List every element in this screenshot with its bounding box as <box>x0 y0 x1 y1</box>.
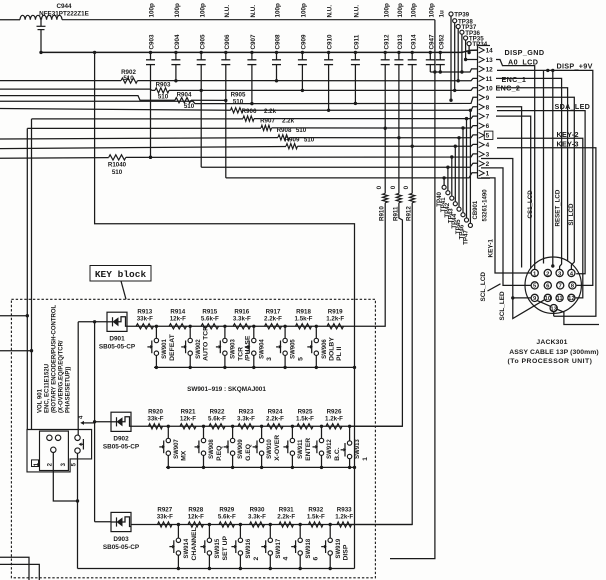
label JACK301 <box>508 339 599 365</box>
resistor R924 2.2k-F <box>266 408 284 429</box>
wire <box>78 320 107 323</box>
svg-text:1: 1 <box>362 457 369 461</box>
wire SI_LCD drop <box>496 97 575 269</box>
svg-text:SW912: SW912 <box>327 439 333 459</box>
svg-text:B.C.: B.C. <box>334 447 341 461</box>
switch SW903 <box>216 325 252 370</box>
switch SW918 <box>291 523 319 570</box>
resistor R910 0 <box>344 128 388 326</box>
wire to pin12 <box>440 69 477 72</box>
label SW901-919 <box>187 386 266 393</box>
wire <box>201 163 477 167</box>
wire <box>327 65 330 112</box>
test point TP42 <box>444 155 454 217</box>
wire A0_LCD pin13 stub <box>466 59 478 61</box>
svg-text:R905: R905 <box>231 91 246 98</box>
switch SW913 <box>341 425 369 470</box>
wire SCL_LCD <box>480 168 531 302</box>
svg-text:4: 4 <box>486 142 490 149</box>
resistor R931 2.2k-F <box>277 507 295 528</box>
svg-text:33k-F: 33k-F <box>157 514 173 521</box>
wire <box>32 118 244 120</box>
svg-text:R911: R911 <box>392 206 399 221</box>
wire <box>94 322 96 522</box>
svg-text:D901: D901 <box>109 336 125 343</box>
svg-text:SW906: SW906 <box>322 339 328 359</box>
svg-text:5.6k-F: 5.6k-F <box>201 315 219 322</box>
svg-text:2: 2 <box>253 557 260 561</box>
wire <box>126 154 478 158</box>
svg-text:SW910: SW910 <box>267 439 273 459</box>
KEY block border <box>11 299 375 578</box>
ground bus <box>41 50 478 52</box>
resistor R909 510 <box>285 136 315 148</box>
resistor R913 33k-F <box>136 308 154 329</box>
wire ENC_1 line <box>0 80 121 82</box>
svg-text:R920: R920 <box>148 408 163 415</box>
svg-text:N.U.: N.U. <box>354 5 361 18</box>
resistor R927 33k-F <box>157 507 173 528</box>
svg-text:DISP_+9V: DISP_+9V <box>557 62 593 71</box>
wire <box>250 65 253 106</box>
svg-text:3.3k-F: 3.3k-F <box>233 315 251 322</box>
svg-text:JACK301: JACK301 <box>536 339 567 346</box>
svg-text:DEFEAT: DEFEAT <box>169 333 176 361</box>
filter C944 NFE31PT222Z1E <box>20 3 89 52</box>
svg-text:12k-F: 12k-F <box>180 415 196 422</box>
svg-text:3: 3 <box>266 357 273 361</box>
svg-text:2: 2 <box>486 161 490 168</box>
rotary encoder VOL901 <box>27 430 92 472</box>
svg-text:SW919: SW919 <box>336 538 342 558</box>
switch SW906 <box>307 325 343 370</box>
capacitor C952 1u <box>436 10 446 65</box>
switch SW901 <box>147 325 175 370</box>
test point TP39 <box>449 12 470 102</box>
svg-text:R1040: R1040 <box>108 162 127 169</box>
svg-text:10: 10 <box>545 296 552 302</box>
test point TP35 <box>464 36 485 62</box>
svg-text:R907: R907 <box>260 118 275 125</box>
capacitor C903 100p <box>146 3 156 65</box>
svg-text:N.U.: N.U. <box>250 5 257 18</box>
switch SW905 <box>276 325 304 370</box>
resistor R932 1.5k-F <box>307 507 325 528</box>
test point TP40 <box>436 176 446 207</box>
resistor R912 0 <box>348 146 415 524</box>
resistor R922 5.6k-F <box>208 408 226 429</box>
svg-text:TP47: TP47 <box>462 230 469 245</box>
resistor R915 5.6k-F <box>201 308 219 329</box>
junction <box>93 51 96 54</box>
resistor R1040 510 <box>108 155 127 176</box>
svg-text:C909: C909 <box>301 34 308 50</box>
svg-text:R926: R926 <box>327 408 342 415</box>
wire KEY-3 line <box>0 147 286 149</box>
wire C947/C952 join <box>430 70 442 73</box>
wire rail1 <box>154 366 355 368</box>
svg-text:5: 5 <box>298 357 305 361</box>
wire <box>93 420 111 423</box>
svg-text:VOL 901: VOL 901 <box>37 388 43 413</box>
wire rail2 <box>166 466 355 468</box>
svg-text:8: 8 <box>486 104 490 111</box>
svg-text:12: 12 <box>568 296 575 302</box>
svg-text:100p: 100p <box>397 3 404 18</box>
diode D901 SB05-05-CP <box>99 312 136 350</box>
wire <box>191 99 226 101</box>
wire <box>439 65 441 72</box>
svg-text:D903: D903 <box>113 536 129 543</box>
wire <box>27 127 261 129</box>
svg-text:N.U.: N.U. <box>327 5 334 18</box>
svg-text:4: 4 <box>283 557 290 561</box>
wire <box>224 65 227 178</box>
resistor R933 1.2k-F <box>335 507 353 528</box>
wire <box>496 88 568 262</box>
svg-text:R925: R925 <box>298 408 313 415</box>
svg-text:NFE31PT222Z1E: NFE31PT222Z1E <box>39 11 89 18</box>
wire <box>0 350 32 352</box>
svg-text:SW901: SW901 <box>162 339 168 359</box>
resistor R920 33k-F <box>147 408 163 429</box>
wire CS1_LCD drop <box>496 60 535 270</box>
svg-text:33k-F: 33k-F <box>137 315 153 322</box>
wire <box>511 296 544 318</box>
connector CB901 53261-1490 <box>473 46 493 222</box>
wire row3 <box>131 524 412 526</box>
wire <box>0 96 175 101</box>
wire <box>537 301 599 325</box>
net KEY-3 <box>497 140 596 317</box>
svg-text:1.5k-F: 1.5k-F <box>295 315 313 322</box>
svg-text:P.EQ: P.EQ <box>216 446 223 461</box>
svg-text:C952: C952 <box>438 34 445 50</box>
switch SW911 <box>283 425 311 470</box>
wire <box>0 557 29 580</box>
switch SW908 <box>195 425 223 470</box>
svg-text:510: 510 <box>123 75 134 82</box>
wire <box>0 19 20 21</box>
wire matrix common <box>95 52 355 568</box>
svg-text:100p: 100p <box>383 3 390 18</box>
resistor R919 1.2k-F <box>326 308 344 329</box>
svg-text:SW901–919 : SKQMAJ001: SW901–919 : SKQMAJ001 <box>187 386 266 393</box>
svg-text:R912: R912 <box>406 206 413 221</box>
wire row1 <box>127 325 344 327</box>
svg-text:C903: C903 <box>149 34 156 50</box>
svg-text:2.2k-F: 2.2k-F <box>264 315 282 322</box>
test point TP37 <box>456 24 477 82</box>
svg-text:(ROTARY ENCODER/PUSH-CONTROL: (ROTARY ENCODER/PUSH-CONTROL <box>51 304 57 413</box>
svg-text:R908: R908 <box>277 127 292 134</box>
svg-text:SET UP: SET UP <box>222 535 229 560</box>
switch SW915 <box>200 523 228 570</box>
svg-text:C944: C944 <box>56 3 72 10</box>
svg-text:14: 14 <box>486 48 494 55</box>
svg-text:SW911: SW911 <box>298 439 304 459</box>
wire <box>0 109 231 111</box>
svg-text:100p: 100p <box>301 3 308 18</box>
wire <box>390 72 435 559</box>
svg-text:510: 510 <box>112 169 123 176</box>
svg-text:SI_LCD: SI_LCD <box>568 203 575 226</box>
net DISP_+9V <box>497 62 593 286</box>
svg-text:R924: R924 <box>268 408 283 415</box>
svg-text:R906: R906 <box>242 108 257 115</box>
switch SW902 <box>181 325 209 370</box>
svg-text:9: 9 <box>486 95 490 102</box>
junction <box>546 69 554 72</box>
svg-text:RESET_LCD: RESET_LCD <box>554 189 561 226</box>
net DISP_GND <box>505 48 545 57</box>
wire <box>226 173 478 178</box>
svg-text:R916: R916 <box>234 308 249 315</box>
svg-text:1.2k-F: 1.2k-F <box>326 315 344 322</box>
net SDA_LED <box>497 102 590 274</box>
svg-text:SW902: SW902 <box>196 339 202 359</box>
diode D902 SB05-05-CP <box>103 412 140 450</box>
svg-text:11: 11 <box>486 76 493 83</box>
resistor R906 2.2k <box>242 108 277 121</box>
wire <box>149 65 152 159</box>
wire KEY-2 line <box>0 138 278 139</box>
svg-text:10: 10 <box>486 85 494 92</box>
svg-text:(X-OVER/G.EQ/P.EQ/TCR/: (X-OVER/G.EQ/P.EQ/TCR/ <box>58 340 64 413</box>
resistor R921 12k-F <box>180 408 196 429</box>
svg-text:SW909: SW909 <box>238 439 244 459</box>
resistor R929 5.6k-F <box>218 507 236 528</box>
svg-text:SW905: SW905 <box>291 339 297 359</box>
svg-text:13: 13 <box>486 57 494 64</box>
svg-text:KEY block: KEY block <box>95 269 147 280</box>
resistor R917 2.2k-F <box>264 308 282 329</box>
svg-text:510: 510 <box>184 103 195 110</box>
svg-text:ENC_1: ENC_1 <box>502 75 527 84</box>
svg-text:C904: C904 <box>174 34 181 50</box>
svg-text:0: 0 <box>376 185 383 189</box>
svg-text:100p: 100p <box>410 3 417 18</box>
svg-text:R921: R921 <box>181 408 196 415</box>
svg-text:1.5k-F: 1.5k-F <box>307 514 325 521</box>
resistor R911 0 <box>350 138 403 427</box>
svg-text:R903: R903 <box>156 82 171 89</box>
junction <box>39 51 42 54</box>
capacitor C905 100p <box>197 3 207 65</box>
svg-text:C910: C910 <box>327 34 334 50</box>
net KEY-2 <box>497 130 583 298</box>
wire <box>434 20 436 72</box>
svg-text:C947: C947 <box>428 34 435 50</box>
svg-text:11: 11 <box>556 296 563 302</box>
svg-text:SW917: SW917 <box>276 538 282 558</box>
svg-text:C912: C912 <box>383 34 390 50</box>
svg-text:C913: C913 <box>397 34 404 50</box>
net ENC_2 <box>496 84 521 93</box>
svg-text:100p: 100p <box>199 3 206 18</box>
svg-text:510: 510 <box>233 99 244 106</box>
resistor R908 510 <box>277 127 307 140</box>
capacitor C914 100p <box>408 3 418 65</box>
svg-text:C906: C906 <box>224 34 231 50</box>
svg-text:C905: C905 <box>199 34 206 50</box>
test point TP36 <box>460 30 481 74</box>
capacitor C911 N.U. <box>351 5 361 65</box>
wire <box>354 65 357 106</box>
resistor R904 510 <box>175 91 195 110</box>
svg-text:1.2k-F: 1.2k-F <box>325 415 343 422</box>
svg-text:R929: R929 <box>219 507 234 514</box>
test point TP41 <box>440 166 450 213</box>
svg-text:1: 1 <box>486 171 490 178</box>
svg-text:ENC, EC11E152U: ENC, EC11E152U <box>44 364 50 413</box>
wire <box>411 65 414 148</box>
wire <box>138 78 478 80</box>
wire <box>496 116 531 268</box>
wire <box>543 70 545 263</box>
test point TP46 <box>459 117 469 240</box>
svg-text:(To PROCESSOR UNIT): (To PROCESSOR UNIT) <box>508 358 593 365</box>
svg-text:R932: R932 <box>308 507 323 514</box>
capacitor C910 N.U. <box>324 5 334 65</box>
svg-text:33k-F: 33k-F <box>147 415 163 422</box>
svg-text:PL II: PL II <box>336 347 343 361</box>
resistor R907 2.2k <box>260 118 294 131</box>
svg-text:R931: R931 <box>279 507 294 514</box>
resistor R925 1.5k-F <box>296 408 314 429</box>
svg-text:DISP: DISP <box>343 544 350 560</box>
svg-text:1.5k-F: 1.5k-F <box>296 415 314 422</box>
svg-text:SW913: SW913 <box>355 439 361 459</box>
svg-text:6: 6 <box>486 123 490 130</box>
svg-text:D902: D902 <box>113 436 129 443</box>
wire <box>272 126 478 128</box>
svg-text:5: 5 <box>486 133 490 140</box>
svg-text:AUTO TCR: AUTO TCR <box>203 326 210 361</box>
svg-text:CHANNEL: CHANNEL <box>191 527 198 560</box>
wire <box>174 65 177 83</box>
wire <box>553 312 555 317</box>
svg-text:MX: MX <box>181 450 188 461</box>
svg-text:12k-F: 12k-F <box>170 315 186 322</box>
svg-text:R909: R909 <box>285 136 300 143</box>
svg-text:SW915: SW915 <box>215 538 221 558</box>
svg-text:SDA_LED: SDA_LED <box>555 102 591 111</box>
svg-text:C911: C911 <box>354 34 361 49</box>
resistor R918 1.5k-F <box>295 308 313 329</box>
svg-text:510: 510 <box>304 136 315 143</box>
svg-text:7: 7 <box>486 114 490 121</box>
svg-text:2.2k: 2.2k <box>264 108 277 115</box>
svg-text:13: 13 <box>550 306 557 312</box>
junction <box>353 366 356 469</box>
svg-text:SW914: SW914 <box>184 538 190 558</box>
capacitor C908 100p <box>272 3 282 65</box>
wire <box>0 157 109 160</box>
svg-text:SCL_LED: SCL_LED <box>499 291 506 321</box>
svg-text:53261-1490: 53261-1490 <box>483 189 489 222</box>
wire ENC_2 line <box>0 89 155 90</box>
svg-text:R913: R913 <box>137 308 152 315</box>
svg-text:3.3k-F: 3.3k-F <box>237 415 255 422</box>
svg-text:CB901: CB901 <box>473 200 479 219</box>
test point TP47 <box>462 109 472 245</box>
wire <box>169 88 478 91</box>
wire <box>397 65 400 140</box>
wire <box>429 65 431 72</box>
switch SW910 <box>253 425 281 470</box>
svg-text:SW904: SW904 <box>259 339 265 359</box>
switch SW909 <box>224 425 252 470</box>
net A0_LCD <box>508 57 538 66</box>
switch SW917 <box>261 523 289 570</box>
svg-text:100p: 100p <box>428 3 435 18</box>
resistor R903 510 <box>155 82 171 101</box>
svg-text:G.EQ: G.EQ <box>245 444 252 461</box>
svg-text:SW907: SW907 <box>174 439 180 459</box>
svg-text:SW908: SW908 <box>209 439 215 459</box>
test point TP34 <box>467 41 488 54</box>
svg-text:R918: R918 <box>296 308 311 315</box>
svg-text:TCR: TCR <box>237 347 244 361</box>
test point TP38 <box>453 18 474 92</box>
diode D903 SB05-05-CP <box>103 512 140 550</box>
wire +9V top line <box>62 19 435 21</box>
wire <box>290 135 478 138</box>
svg-text:DOLBY: DOLBY <box>329 337 336 361</box>
svg-text:KEY-1: KEY-1 <box>488 239 495 258</box>
wire <box>496 107 522 268</box>
wire <box>26 128 29 429</box>
switch SW916 <box>231 523 259 570</box>
switch SW912 <box>313 425 341 470</box>
svg-text:R917: R917 <box>266 308 281 315</box>
svg-text:R922: R922 <box>210 408 225 415</box>
resistor R916 3.3k-F <box>233 308 251 329</box>
switch SW914 <box>169 523 197 570</box>
wire rail3 <box>78 568 355 570</box>
svg-text:SW903: SW903 <box>231 339 237 359</box>
svg-text:ASSY CABLE 13P (300mm): ASSY CABLE 13P (300mm) <box>509 349 599 356</box>
capacitor C947 100p <box>426 3 436 65</box>
label KEY block <box>90 266 151 300</box>
test point TP44 <box>451 136 461 229</box>
svg-text:0: 0 <box>403 185 410 189</box>
svg-text:2.2k-F: 2.2k-F <box>266 415 284 422</box>
wire SCL_LED <box>481 159 531 321</box>
test point TP43 <box>447 145 457 224</box>
wire <box>30 119 33 430</box>
wire <box>95 521 111 523</box>
svg-text:5.6k-F: 5.6k-F <box>218 514 236 521</box>
svg-text:R927: R927 <box>157 507 172 514</box>
capacitor C904 100p <box>171 3 181 65</box>
switch SW904 <box>245 325 273 370</box>
resistor R930 3.3k-F <box>248 507 266 528</box>
svg-text:2.2k-F: 2.2k-F <box>277 514 295 521</box>
svg-text:R928: R928 <box>188 507 203 514</box>
net ENC_1 <box>502 75 527 84</box>
resistor R914 12k-F <box>169 308 187 329</box>
switch SW907 <box>159 425 187 470</box>
svg-text:12: 12 <box>486 66 494 73</box>
svg-text:0: 0 <box>390 185 397 189</box>
wire encoder pin5 <box>77 453 79 568</box>
wire <box>551 70 554 267</box>
svg-text:X-OVER: X-OVER <box>274 435 281 461</box>
label VOL901 <box>37 304 71 413</box>
svg-text:C907: C907 <box>250 34 257 50</box>
